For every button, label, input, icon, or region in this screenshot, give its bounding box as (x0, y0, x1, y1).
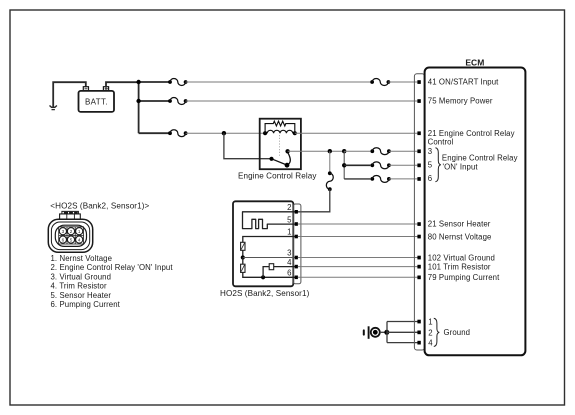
wire F6 to ECM pin 6 (389, 178, 418, 180)
svg-text:5. Sensor Heater: 5. Sensor Heater (51, 291, 112, 300)
wire F5 to ECM pin 5 (389, 164, 418, 166)
connector top tab (60, 214, 81, 220)
wire node to fuse F5 (344, 164, 370, 166)
wire F2 to ECM pin 75 (186, 100, 418, 102)
ECM box (425, 68, 526, 356)
svg-text:ECM: ECM (465, 57, 484, 67)
svg-text:75 Memory Power: 75 Memory Power (428, 97, 493, 106)
svg-text:21 Engine Control Relay: 21 Engine Control Relay (428, 129, 515, 138)
wire ladder vertical (343, 151, 345, 179)
wire corner to fuse F6 (344, 178, 370, 180)
wire HO2S pin 4 to ECM Trim Resistor (298, 266, 418, 268)
ECM connector shell (414, 74, 424, 350)
svg-text:1: 1 (428, 318, 432, 327)
wire to fuse F1 (139, 81, 169, 83)
node battery feed A (136, 80, 140, 84)
wire to ECM pin 1 (387, 321, 418, 323)
svg-text:41 ON/START Input: 41 ON/START Input (428, 78, 499, 87)
svg-text:3. Virtual Ground: 3. Virtual Ground (51, 272, 112, 281)
brace ECM ground (434, 318, 440, 346)
node ground (384, 330, 389, 335)
fuse F4 (370, 148, 390, 155)
svg-text:1: 1 (287, 228, 291, 237)
HO2S pin 1 wire to resistor R1 (243, 237, 296, 243)
wire node down to relay switch (224, 133, 272, 159)
svg-text:6. Pumping Current: 6. Pumping Current (51, 300, 121, 309)
svg-text:79 Pumping Current: 79 Pumping Current (428, 273, 500, 282)
fuse F1 (168, 79, 187, 86)
node fuse ladder top (342, 149, 346, 153)
brace ECM 3/5/6 (435, 148, 440, 182)
svg-text:3: 3 (62, 229, 65, 234)
wire node to fuse F4 (344, 150, 370, 152)
wire down to vertical fuse F8 (329, 151, 331, 171)
connector C1 face view (48, 211, 92, 252)
wire relay coil out to ECM pin 21 (295, 132, 418, 134)
wire relay output to node row (288, 150, 345, 152)
fuse F8 (vertical) (326, 171, 333, 191)
relay switch (272, 159, 287, 165)
ground G2 (eyelet bolt ground) (364, 326, 380, 339)
battery BATT (79, 87, 115, 112)
HO2S connector shell (293, 204, 301, 284)
HO2S pin squares (295, 210, 298, 279)
svg-text:3: 3 (287, 249, 291, 258)
wire junction column down (138, 82, 140, 133)
relay coil L (267, 130, 293, 133)
svg-text:BATT.: BATT. (85, 97, 108, 106)
ground G1 (chassis ground at battery) (50, 106, 57, 110)
fuse F6 (370, 175, 390, 182)
wire to fuse F2 (139, 100, 169, 102)
wire to fuse F3 (139, 132, 169, 134)
wire F7 to ECM pin 41 (388, 81, 417, 83)
svg-text:5: 5 (287, 215, 292, 224)
svg-text:4: 4 (287, 258, 292, 267)
svg-text:80 Nernst Voltage: 80 Nernst Voltage (428, 232, 492, 241)
resistor R1 (241, 242, 245, 250)
svg-text:5: 5 (428, 161, 433, 170)
HO2S heater element (243, 212, 297, 229)
pin list (51, 254, 174, 309)
wire node to resistor R3 (263, 267, 269, 278)
svg-text:2: 2 (287, 203, 291, 212)
wire R1 to node (242, 250, 244, 257)
svg-text:102 Virtual Ground: 102 Virtual Ground (428, 253, 495, 262)
ECM pin labels (428, 78, 518, 348)
node relay feed (222, 131, 226, 135)
svg-text:2. Engine Control Relay 'ON' I: 2. Engine Control Relay 'ON' Input (51, 263, 174, 272)
relay dashed link (279, 135, 281, 157)
wire HO2S pin 6 to ECM Pumping Current (298, 276, 418, 278)
svg-text:6: 6 (287, 268, 291, 277)
wire F3 to relay coil (186, 132, 266, 134)
node virtual ground (241, 255, 245, 259)
wire HO2S pin 3 to ECM Virtual Ground (298, 257, 418, 259)
wire battery negative to ground (53, 82, 86, 107)
svg-text:3: 3 (428, 147, 432, 156)
wire HO2S pin 5 to ECM Sensor Heater (298, 223, 418, 225)
wire to ECM pin 2 (387, 331, 418, 333)
svg-text:1: 1 (78, 229, 81, 234)
wire F8 to HO2S pin 2 (296, 189, 330, 212)
svg-text:<HO2S (Bank2, Sensor1)>: <HO2S (Bank2, Sensor1)> (50, 201, 149, 210)
svg-text:4: 4 (78, 237, 81, 242)
node battery feed B (136, 99, 140, 103)
svg-text:4: 4 (428, 339, 433, 348)
svg-text:5: 5 (70, 237, 73, 242)
resistor R2 (241, 264, 245, 272)
relay resistor (265, 121, 295, 133)
node pumping branch (261, 275, 265, 279)
svg-text:4. Trim Resistor: 4. Trim Resistor (51, 282, 107, 291)
wire F1 to fuse F7 (186, 81, 371, 83)
wire F4 to ECM pin 3 (389, 150, 418, 152)
svg-text:6: 6 (428, 174, 432, 183)
wire ground to node (380, 331, 387, 333)
svg-text:21 Sensor Heater: 21 Sensor Heater (428, 220, 491, 229)
svg-text:'ON' Input: 'ON' Input (443, 163, 479, 172)
svg-text:Engine Control Relay: Engine Control Relay (442, 154, 518, 163)
svg-text:101 Trim Resistor: 101 Trim Resistor (428, 263, 491, 272)
wire battery positive to junction column (106, 82, 139, 87)
fuse F7 (370, 79, 390, 86)
svg-text:Ground: Ground (444, 328, 471, 337)
wire to ECM pin 4 (387, 342, 418, 344)
relay U1 Engine Control Relay (260, 119, 301, 170)
HO2S pin numbers (287, 203, 292, 278)
wire node to pin 3 (243, 257, 296, 259)
wire ground riser (386, 322, 388, 343)
svg-text:Engine Control Relay: Engine Control Relay (238, 172, 317, 181)
svg-text:Control: Control (428, 138, 454, 147)
wire node to resistor R2 (242, 258, 244, 265)
svg-text:6: 6 (62, 237, 65, 242)
fuse F2 (168, 98, 187, 105)
node relay output to F8 (328, 149, 332, 153)
wire R3 to pin 4 (274, 266, 297, 268)
svg-text:2: 2 (70, 229, 73, 234)
fuse F3 (168, 130, 187, 137)
svg-text:1. Nernst Voltage: 1. Nernst Voltage (51, 254, 113, 263)
svg-text:HO2S (Bank2, Sensor1): HO2S (Bank2, Sensor1) (220, 289, 310, 298)
wire HO2S pin 1 to ECM Nernst Voltage (298, 236, 418, 238)
ECM pin squares (417, 80, 420, 344)
wire R2 to pin 6 (243, 272, 296, 277)
resistor R3 (269, 264, 274, 270)
fuse F5 (370, 162, 390, 169)
HO2S sensor box (233, 201, 293, 286)
node ladder mid (342, 163, 346, 167)
svg-text:2: 2 (428, 328, 432, 337)
